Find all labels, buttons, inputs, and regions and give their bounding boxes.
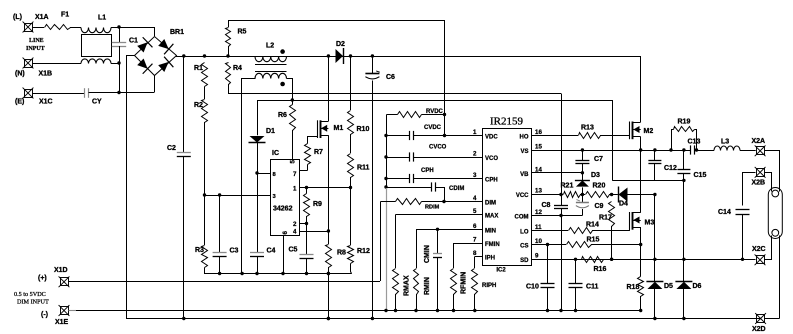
svg-text:X1D: X1D (54, 267, 68, 274)
svg-text:CVCO: CVCO (429, 145, 447, 151)
svg-text:R5: R5 (238, 29, 247, 36)
svg-text:X1E: X1E (55, 319, 69, 326)
svg-text:R15: R15 (587, 237, 600, 244)
svg-text:6: 6 (282, 231, 289, 235)
svg-text:LO: LO (520, 230, 529, 236)
svg-text:FMIN: FMIN (485, 242, 500, 248)
svg-text:34262: 34262 (273, 206, 293, 213)
svg-text:IR2159: IR2159 (490, 116, 524, 128)
svg-text:MIN: MIN (485, 229, 496, 235)
svg-text:13: 13 (535, 188, 542, 195)
svg-text:C11: C11 (586, 284, 599, 291)
svg-text:C13: C13 (688, 139, 701, 146)
svg-text:R3: R3 (195, 247, 204, 254)
svg-text:IC: IC (272, 150, 279, 157)
svg-text:D6: D6 (693, 283, 702, 290)
svg-text:9: 9 (535, 252, 539, 259)
svg-text:VCO: VCO (485, 156, 498, 162)
svg-text:IPH: IPH (485, 256, 495, 262)
svg-text:R11: R11 (357, 165, 370, 172)
svg-text:R14: R14 (586, 222, 599, 229)
svg-text:SD: SD (520, 258, 529, 264)
svg-text:CDIM: CDIM (449, 186, 464, 192)
svg-text:VB: VB (520, 172, 529, 178)
svg-text:(-): (-) (41, 312, 48, 319)
svg-text:4: 4 (293, 229, 297, 236)
svg-text:6: 6 (473, 223, 477, 230)
svg-text:R12: R12 (357, 248, 370, 255)
svg-text:C4: C4 (267, 248, 276, 255)
svg-text:M1: M1 (334, 125, 344, 132)
svg-text:R19: R19 (678, 119, 691, 126)
svg-text:X1A: X1A (35, 14, 49, 21)
svg-text:DIM INPUT: DIM INPUT (17, 299, 49, 306)
svg-text:R17: R17 (599, 215, 612, 222)
svg-text:CPH: CPH (485, 178, 498, 184)
svg-text:11: 11 (535, 224, 542, 231)
svg-text:MAX: MAX (485, 214, 498, 220)
svg-text:5: 5 (473, 208, 477, 215)
svg-text:CVDC: CVDC (424, 125, 442, 131)
svg-text:D4: D4 (619, 201, 628, 208)
svg-text:VS: VS (520, 149, 528, 155)
svg-text:CS: CS (520, 244, 528, 250)
svg-text:5: 5 (290, 160, 297, 164)
svg-text:0.5 to 5VDC: 0.5 to 5VDC (14, 291, 46, 298)
svg-text:(N): (N) (15, 71, 25, 78)
svg-text:7: 7 (473, 237, 477, 244)
svg-text:CY: CY (92, 99, 102, 106)
svg-text:R2: R2 (194, 102, 203, 109)
svg-text:RMAX: RMAX (404, 275, 411, 296)
svg-text:LINE: LINE (29, 38, 44, 44)
svg-text:VCC: VCC (516, 193, 529, 199)
svg-text:C2: C2 (167, 145, 176, 152)
svg-text:CMIN: CMIN (424, 245, 431, 263)
svg-text:16: 16 (535, 129, 542, 136)
svg-text:F1: F1 (61, 12, 69, 19)
svg-text:D3: D3 (591, 172, 600, 179)
svg-text:D1: D1 (266, 128, 275, 135)
svg-text:X2D: X2D (752, 326, 766, 333)
svg-text:RDIM: RDIM (425, 205, 440, 211)
svg-text:RFMIN: RFMIN (461, 272, 468, 294)
svg-text:C15: C15 (694, 172, 707, 179)
svg-text:X2C: X2C (752, 246, 766, 253)
svg-text:2: 2 (473, 151, 477, 158)
svg-text:(E): (E) (15, 99, 24, 106)
svg-text:X1B: X1B (39, 71, 53, 78)
svg-text:CPH: CPH (421, 168, 434, 174)
svg-text:X1C: X1C (39, 99, 53, 106)
svg-text:RMIN: RMIN (424, 277, 431, 295)
svg-text:X2B: X2B (752, 180, 766, 187)
svg-text:C10: C10 (526, 284, 539, 291)
svg-text:COM: COM (515, 215, 529, 221)
svg-text:D5: D5 (664, 283, 673, 290)
svg-text:C8: C8 (542, 202, 551, 209)
svg-text:C5: C5 (289, 247, 298, 254)
svg-text:IC2: IC2 (496, 268, 506, 274)
svg-text:RIPH: RIPH (482, 283, 496, 289)
svg-text:8: 8 (473, 250, 477, 257)
svg-text:R10: R10 (357, 126, 370, 133)
svg-text:C7: C7 (594, 156, 603, 163)
svg-text:C3: C3 (230, 248, 239, 255)
svg-text:10: 10 (535, 238, 542, 245)
svg-text:L1: L1 (98, 15, 106, 22)
svg-text:R13: R13 (581, 125, 594, 132)
svg-text:R4: R4 (233, 65, 242, 72)
svg-text:X2A: X2A (752, 138, 766, 145)
svg-text:INPUT: INPUT (26, 46, 45, 52)
svg-text:3: 3 (473, 172, 477, 179)
svg-text:(+): (+) (38, 275, 47, 282)
svg-text:RVDC: RVDC (426, 109, 444, 115)
svg-text:VDC: VDC (485, 135, 498, 141)
svg-text:R20: R20 (593, 183, 606, 190)
svg-text:C1: C1 (129, 38, 138, 45)
svg-text:BR1: BR1 (170, 29, 184, 36)
svg-text:C6: C6 (386, 74, 395, 81)
svg-text:C14: C14 (718, 209, 731, 216)
svg-text:M3: M3 (645, 220, 655, 227)
svg-text:R1: R1 (194, 65, 203, 72)
svg-text:R9: R9 (313, 201, 322, 208)
svg-text:15: 15 (535, 144, 542, 151)
svg-text:R6: R6 (278, 112, 287, 119)
svg-text:DIM: DIM (485, 201, 496, 207)
svg-text:2: 2 (293, 221, 297, 228)
svg-text:1: 1 (293, 186, 297, 193)
svg-text:HO: HO (520, 135, 529, 141)
svg-text:C9: C9 (595, 203, 604, 210)
svg-text:C12: C12 (664, 165, 677, 172)
svg-text:(L): (L) (13, 14, 22, 21)
svg-text:R18: R18 (627, 284, 640, 291)
svg-text:1: 1 (473, 129, 477, 136)
svg-text:12: 12 (535, 209, 542, 216)
svg-text:M2: M2 (644, 128, 654, 135)
svg-text:L3: L3 (721, 139, 729, 146)
svg-text:R7: R7 (314, 149, 323, 156)
svg-text:7: 7 (293, 171, 297, 178)
svg-text:L2: L2 (266, 43, 274, 50)
svg-text:R21: R21 (561, 183, 574, 190)
svg-text:R8: R8 (337, 250, 346, 257)
svg-text:D2: D2 (336, 41, 345, 48)
svg-text:R16: R16 (594, 266, 607, 273)
svg-text:4: 4 (473, 195, 477, 202)
